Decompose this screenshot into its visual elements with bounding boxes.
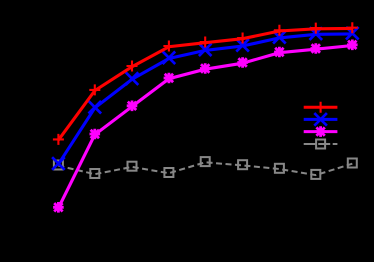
magenta star marker p1 — [53, 202, 64, 213]
magenta star marker p9 — [347, 40, 358, 51]
magenta star marker p8 — [311, 43, 322, 54]
magenta star marker p6 — [237, 57, 248, 68]
blue cross marker p8 — [310, 27, 323, 40]
gray square marker p8 — [311, 170, 320, 179]
blue cross marker p6 — [236, 39, 249, 52]
red series line — [58, 28, 352, 140]
gray square marker p5 — [201, 157, 210, 166]
red plus marker p1 — [53, 134, 64, 145]
legend magenta sample line — [304, 130, 338, 133]
magenta series line — [58, 46, 352, 209]
legend red plus marker — [315, 102, 326, 113]
red plus marker p2 — [89, 84, 100, 95]
blue cross marker p5 — [199, 43, 212, 56]
magenta star marker p5 — [200, 63, 211, 74]
gray dashed series line — [58, 162, 352, 175]
blue cross marker p2 — [89, 101, 102, 114]
blue cross marker p9 — [346, 27, 359, 40]
gray square marker p4 — [164, 168, 173, 177]
gray square marker p7 — [275, 164, 284, 173]
legend blue sample line — [304, 118, 338, 121]
blue cross marker p4 — [163, 52, 176, 65]
legend blue cross marker — [314, 113, 327, 126]
red plus marker p7 — [274, 25, 285, 36]
blue series line — [58, 34, 352, 164]
red plus marker p4 — [163, 41, 174, 52]
magenta star marker p3 — [127, 101, 138, 112]
red plus marker p5 — [200, 37, 211, 48]
red plus marker p8 — [310, 23, 321, 34]
legend gray square marker — [316, 140, 325, 149]
red plus marker p6 — [237, 33, 248, 44]
gray square marker p3 — [128, 162, 137, 171]
blue cross marker p3 — [126, 72, 139, 85]
legend red sample line — [304, 106, 338, 109]
gray square marker p1 — [54, 161, 63, 170]
gray square marker p9 — [348, 159, 357, 168]
magenta star marker p7 — [274, 47, 285, 58]
red plus marker p3 — [127, 61, 138, 72]
red plus marker p9 — [347, 22, 358, 33]
magenta star marker p4 — [164, 73, 175, 84]
gray square marker p2 — [90, 169, 99, 178]
legend magenta star marker — [315, 126, 326, 137]
gray square marker p6 — [238, 160, 247, 169]
magenta star marker p2 — [90, 129, 101, 140]
blue cross marker p7 — [273, 31, 286, 44]
legend gray dashed sample line — [304, 143, 338, 145]
blue cross marker p1 — [52, 157, 65, 170]
